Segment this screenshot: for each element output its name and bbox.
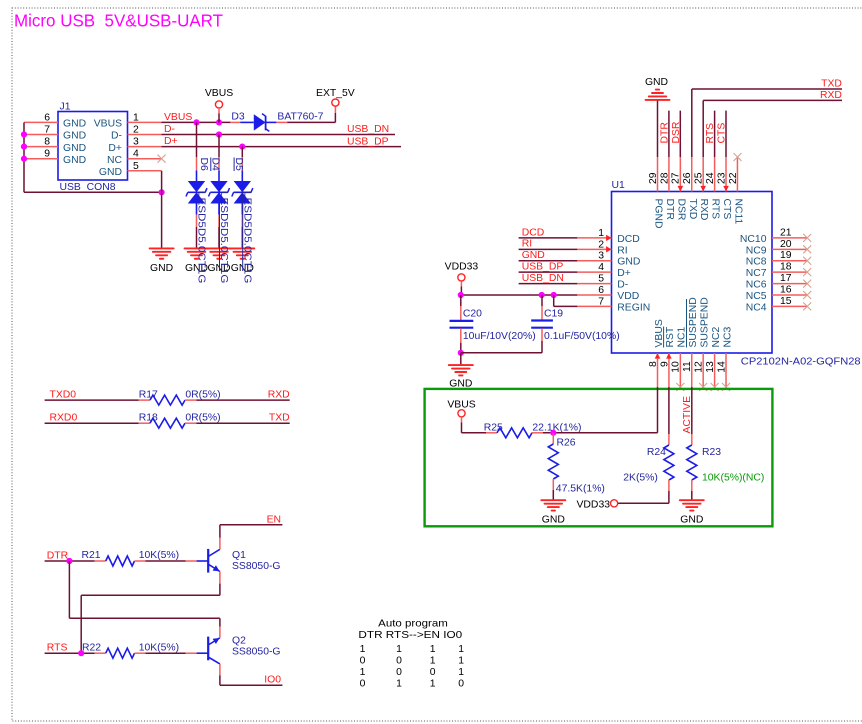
svg-text:BAT760-7: BAT760-7 (277, 112, 323, 123)
J1 pin 2 lead (128, 134, 162, 136)
U1 pin 23 input arrow (723, 186, 729, 192)
wire RTS to R22 (45, 652, 95, 654)
svg-text:USB_DN: USB_DN (522, 273, 564, 284)
svg-text:U1: U1 (612, 180, 626, 191)
wire R21 to Q1 (146, 560, 186, 562)
capacitor C19 top pin (541, 295, 543, 320)
wire VDD rail (461, 294, 578, 296)
net label IO0 (264, 675, 281, 686)
net label CTS vertical (716, 123, 727, 144)
svg-text:NC8: NC8 (746, 257, 767, 268)
svg-text:21: 21 (780, 227, 792, 238)
wire C19 bottom to C20 (461, 352, 542, 354)
ground R26 (541, 500, 565, 510)
svg-text:0: 0 (396, 655, 402, 666)
junction DTR (66, 558, 72, 564)
svg-text:18: 18 (780, 262, 792, 273)
net label EN (267, 514, 281, 525)
transistor Q1 value SS8050-G (232, 561, 281, 572)
junction J1 pin7 (21, 131, 27, 137)
U1 pin 1 input arrow (606, 235, 611, 241)
U1 pin 1 number (598, 228, 604, 239)
net label TXD (821, 78, 842, 89)
svg-text:RTS: RTS (47, 643, 68, 654)
wire D5 to gnd (241, 227, 243, 248)
J1 pin 6 name GND (63, 119, 86, 130)
resistor R18 value (185, 412, 220, 423)
svg-text:DTR: DTR (659, 122, 670, 144)
junction RTS (78, 650, 84, 656)
net label RTS vertical (705, 123, 716, 144)
ground J1 (150, 248, 174, 258)
net label GND at U1 (522, 250, 545, 261)
resistor R25 left pin (486, 432, 497, 434)
svg-text:20: 20 (780, 239, 792, 250)
U1 pin 18 lead (772, 271, 807, 273)
net label DTR vertical (659, 122, 670, 144)
resistor R17 left pin (139, 399, 150, 401)
svg-text:D6: D6 (198, 158, 209, 172)
no-connect U1 pin 14 (722, 383, 730, 391)
net label TXD (269, 413, 290, 424)
resistor R17 symbol (150, 395, 185, 405)
resistor R26 top pin (552, 433, 554, 444)
svg-text:R24: R24 (647, 447, 666, 458)
diode D6 value (196, 191, 207, 283)
svg-text:R22: R22 (82, 642, 101, 653)
wire D6 to gnd (196, 227, 198, 248)
J1 pin 6 lead (24, 121, 58, 123)
net label USB_DP (347, 136, 389, 147)
svg-text:GND: GND (617, 257, 640, 268)
wire D- rail USB_DN (162, 134, 396, 136)
wire DTR up (668, 111, 670, 157)
resistor R21 left pin (95, 560, 106, 562)
wire D6 top (196, 122, 198, 157)
U1 pin 10 lead (679, 353, 681, 387)
wire Q1 collector to EN (219, 525, 221, 538)
svg-text:REGIN: REGIN (617, 302, 650, 313)
svg-text:USB_CON8: USB_CON8 (60, 182, 116, 193)
resistor R24 symbol (664, 445, 674, 480)
U1 pin 9 RST overline (663, 327, 665, 348)
ground D5 (230, 248, 254, 258)
no-connect U1 pin 19 (803, 257, 811, 265)
U1 pin 14 number (716, 361, 727, 373)
resistor R22 refdes (82, 642, 101, 653)
ground D4 (207, 248, 231, 258)
svg-text:9: 9 (659, 361, 670, 367)
J1 pin 7 number (44, 125, 50, 136)
svg-text:GND: GND (522, 250, 545, 261)
svg-text:R26: R26 (557, 438, 576, 449)
J1 pin 9 lead (24, 158, 58, 160)
svg-text:11: 11 (682, 361, 693, 372)
resistor R23 bottom pin (691, 480, 693, 491)
U1 pin 15 number (780, 296, 792, 307)
diode D5 symbol (232, 170, 253, 214)
svg-text:0: 0 (360, 655, 366, 666)
junction J1 pin9 (21, 156, 27, 162)
diode D6 symbol (186, 170, 207, 214)
diode D5 value (241, 191, 252, 283)
resistor R17 right pin (185, 399, 196, 401)
svg-text:PGND: PGND (653, 199, 664, 229)
svg-text:1: 1 (458, 667, 464, 678)
U1 pin 24 number (705, 172, 716, 184)
svg-text:16: 16 (780, 285, 792, 296)
svg-text:USB_DN: USB_DN (347, 124, 389, 135)
svg-text:Micro USB 5V&USB-UART: Micro USB 5V&USB-UART (14, 11, 223, 31)
svg-text:RI: RI (522, 239, 532, 250)
resistor R17 refdes (139, 389, 158, 400)
svg-text:SS8050-G: SS8050-G (232, 647, 281, 658)
svg-text:1: 1 (430, 678, 436, 689)
U1 pin 20 name NC9 (746, 245, 767, 256)
diode D6 top pin (196, 157, 198, 170)
U1 value CP2102N-A02-GQFN28 (741, 357, 861, 368)
ground C20 (449, 365, 473, 375)
wire D+ rail USB_DP (162, 146, 402, 148)
ground D4 label (207, 263, 230, 274)
svg-text:1: 1 (430, 644, 436, 655)
capacitor C20 bottom pin (460, 328, 462, 353)
resistor R18 left pin (139, 422, 150, 424)
J1 pin 1 name VBUS (94, 119, 122, 130)
svg-text:17: 17 (780, 273, 792, 284)
svg-text:SUSPEND: SUSPEND (688, 297, 699, 347)
transistor Q2 symbol (197, 637, 220, 664)
ground R23 label (680, 515, 703, 526)
U1 pin 10 number (671, 361, 682, 373)
svg-text:1: 1 (396, 678, 402, 689)
resistor R24 bottom pin (668, 480, 670, 491)
svg-text:D+: D+ (108, 143, 122, 154)
ground D6 label (185, 263, 208, 274)
U1 pin 20 lead (772, 248, 807, 250)
transistor Q1 symbol (197, 549, 220, 573)
U1 refdes (612, 180, 626, 191)
resistor R23 top pin (691, 434, 693, 445)
no-connect U1 pin 13 (711, 383, 719, 391)
wire D3 to EXT_5V (287, 106, 335, 122)
svg-text:22: 22 (728, 172, 739, 184)
J1 pin 2 name D- (111, 131, 122, 142)
U1 pin 23 number (716, 172, 727, 184)
resistor R21 refdes (82, 550, 101, 561)
wire TXD0 left (45, 399, 139, 401)
resistor R21 symbol (106, 556, 135, 566)
svg-text:1: 1 (430, 655, 436, 666)
power flag VBUS label (205, 88, 233, 99)
U1 pin 22 number (728, 172, 739, 184)
svg-text:RST: RST (665, 326, 676, 347)
U1 pin 26 lead (691, 157, 693, 192)
junction C20 bottom (458, 350, 464, 356)
U1 pin 5 lead (577, 283, 611, 285)
svg-text:1: 1 (360, 667, 366, 678)
svg-text:R21: R21 (82, 550, 101, 561)
net label USB_DN at U1 (522, 273, 564, 284)
net label ACTIVE vertical (682, 396, 693, 434)
wire U1 pin9 to R24 (668, 387, 670, 434)
svg-text:GND: GND (99, 167, 122, 178)
wire DTR cross link (69, 561, 220, 618)
svg-text:RI: RI (617, 245, 627, 256)
diode D6 bottom pin (196, 215, 198, 227)
svg-text:VBUS: VBUS (447, 400, 475, 411)
diode D5 refdes (233, 158, 244, 172)
wire U1 pin 5 stub (519, 283, 578, 285)
wire R24 to VDD33 (618, 491, 669, 503)
net label DCD at U1 (522, 227, 545, 238)
svg-text:Auto program: Auto program (378, 619, 448, 630)
svg-text:NC1: NC1 (677, 326, 688, 347)
U1 pin 23 lead (725, 157, 727, 192)
svg-text:DSR: DSR (675, 199, 686, 221)
svg-text:SS8050-G: SS8050-G (232, 561, 281, 572)
svg-text:VBUS: VBUS (164, 112, 192, 123)
svg-text:22.1K(1%): 22.1K(1%) (532, 422, 581, 433)
transistor Q1 base pin (186, 560, 197, 562)
U1 pin 28 name DTR (664, 199, 675, 221)
diode D4 bottom pin (218, 215, 220, 227)
svg-text:DCD: DCD (522, 227, 545, 238)
U1 pin 14 lead (725, 353, 727, 387)
U1 pin 9 name RST (665, 326, 676, 347)
U1 pin 11 number (682, 361, 693, 372)
svg-text:NC9: NC9 (746, 245, 767, 256)
capacitor C20 value (463, 331, 536, 342)
power flag VDD33 2 (611, 500, 618, 507)
U1 pin 27 input arrow (678, 186, 684, 192)
wire PGND (657, 101, 659, 157)
U1 pin 6 number (598, 285, 604, 296)
svg-text:J1: J1 (60, 102, 71, 113)
U1 pin 8 name VBUS (654, 319, 665, 347)
resistor R25 right pin (532, 432, 543, 434)
svg-text:SUSPEND: SUSPEND (699, 297, 710, 347)
capacitor C19 value (544, 331, 620, 342)
J1 pin 5 lead (128, 170, 162, 172)
wire DSR up (679, 111, 681, 157)
wire R25 to U1 pin8 (543, 387, 658, 433)
svg-text:D+: D+ (617, 268, 631, 279)
no-connect U1 pin 21 (803, 234, 811, 242)
wire C20 gnd drop (460, 353, 462, 365)
ground U1 PGND (646, 90, 670, 100)
U1 pin 4 number (598, 262, 604, 273)
J1 pin 9 number (44, 149, 50, 160)
wire R26 to gnd (552, 490, 554, 500)
no-connect U1 pin 18 (803, 268, 811, 276)
wire J1 left vertical (23, 122, 25, 192)
svg-text:IO0: IO0 (264, 675, 281, 686)
wire Q2 collector to IO0 (220, 676, 283, 686)
svg-text:1: 1 (360, 644, 366, 655)
U1 pin 5 name D- (617, 280, 628, 291)
svg-text:DTR: DTR (664, 199, 675, 221)
diode D3 refdes (231, 112, 245, 123)
svg-text:GND: GND (645, 77, 668, 88)
U1 pin 29 lead (657, 157, 659, 192)
U1 pin 3 number (598, 251, 604, 262)
resistor R22 value (139, 642, 179, 653)
J1 pin 3 name D+ (108, 143, 122, 154)
wire VBUS to R25 (462, 432, 487, 434)
U1 pin 19 lead (772, 260, 807, 262)
U1 pin 2 lead (577, 248, 611, 250)
wire RXD0 left (45, 422, 139, 424)
wire U1 pin11 to R23 (691, 387, 693, 434)
transistor Q2 collector pin (219, 664, 221, 676)
svg-text:ACTIVE: ACTIVE (682, 396, 693, 434)
no-connect U1 pin 16 (803, 291, 811, 299)
junction VDD pin7 (551, 292, 557, 298)
wire U1 pin 1 stub (519, 237, 578, 239)
svg-text:14: 14 (716, 361, 727, 373)
svg-text:DTR RTS-->EN IO0: DTR RTS-->EN IO0 (358, 630, 462, 641)
power flag VBUS 2 label (447, 400, 475, 411)
U1 pin 11 name SUSPEND (688, 297, 699, 347)
svg-text:TXD0: TXD0 (50, 390, 77, 401)
resistor R24 value (623, 473, 658, 484)
resistor R17 value (185, 389, 220, 400)
U1 pin 13 name NC2 (711, 326, 722, 347)
svg-text:0R(5%): 0R(5%) (185, 412, 220, 423)
junction VBUS D6 (193, 119, 199, 125)
U1 pin 3 lead (577, 260, 611, 262)
svg-text:NC: NC (107, 155, 123, 166)
svg-text:TXD: TXD (821, 78, 842, 89)
J1 pin 6 number (44, 112, 50, 123)
U1 pin 25 name RXD (698, 199, 709, 221)
U1 pin 2 name RI (617, 245, 627, 256)
U1 pin 21 lead (772, 237, 807, 239)
diode D5 top pin (241, 157, 243, 170)
ground C20 label (449, 378, 472, 389)
U1 pin 29 number (648, 172, 659, 184)
resistor R25 value (532, 422, 581, 433)
U1 pin 12 lead (702, 353, 704, 387)
svg-text:TXD: TXD (687, 199, 698, 220)
J1 pin 4 name NC (107, 155, 123, 166)
svg-text:VDD33: VDD33 (577, 499, 611, 510)
wire TXD (692, 89, 842, 157)
U1 pin 19 number (780, 250, 792, 261)
J1 pin 9 name GND (63, 155, 86, 166)
U1 pin 9 lead (668, 353, 670, 387)
J1 pin 1 number (133, 112, 139, 123)
net label RTS 2 (47, 643, 68, 654)
connector J1 refdes (60, 102, 71, 113)
connector J1 box (58, 112, 128, 181)
J1 pin 7 lead (24, 134, 58, 136)
diode D4 symbol (209, 170, 230, 214)
svg-text:USB_DP: USB_DP (347, 136, 389, 147)
resistor R26 symbol (548, 444, 558, 479)
svg-text:10: 10 (671, 361, 682, 373)
svg-text:0R(5%): 0R(5%) (185, 389, 220, 400)
svg-text:NC5: NC5 (746, 291, 767, 302)
U1 pin 4 lead (577, 271, 611, 273)
power flag VBUS (215, 101, 222, 123)
net label RXD (820, 90, 842, 101)
U1 pin 15 name NC4 (746, 302, 767, 313)
diode D3 value BAT760-7 (277, 112, 323, 123)
resistor R23 refdes (702, 447, 721, 458)
wire U1 pin 2 stub (519, 248, 578, 250)
svg-text:VBUS: VBUS (94, 119, 122, 130)
no-connect U1 pin 10 (676, 383, 684, 391)
svg-text:NC6: NC6 (746, 280, 767, 291)
diode D4 top pin (218, 157, 220, 170)
U1 pin 27 number (671, 172, 682, 184)
svg-text:CP2102N-A02-GQFN28: CP2102N-A02-GQFN28 (741, 357, 861, 368)
resistor R23 value (702, 473, 764, 484)
U1 pin 28 number (659, 172, 670, 184)
ground R23 (680, 500, 704, 510)
no-connect U1 pin 17 (803, 280, 811, 288)
J1 pin 4 lead (128, 158, 162, 160)
U1 pin 14 name NC3 (722, 326, 733, 347)
U1 pin 8 number (648, 361, 659, 367)
junction VDD C20 (458, 292, 464, 298)
resistor R25 symbol (497, 428, 532, 438)
U1 pin 24 lead (714, 157, 716, 192)
wire R22 to Q2 (146, 652, 186, 654)
U1 pin 16 lead (772, 294, 807, 296)
junction VBUS stem (216, 119, 222, 125)
transistor Q1 refdes (232, 550, 246, 561)
svg-text:47.5K(1%): 47.5K(1%) (556, 484, 605, 495)
svg-text:1: 1 (458, 644, 464, 655)
net label USB_DN (347, 124, 389, 135)
svg-text:GND: GND (63, 119, 86, 130)
transistor Q2 value SS8050-G (232, 647, 281, 658)
wire VBUS rail (162, 121, 231, 123)
diode D4 refdes (210, 158, 221, 172)
svg-text:1: 1 (396, 644, 402, 655)
U1 pin 20 number (780, 239, 792, 250)
U1 pin 3 name GND (617, 257, 640, 268)
junction J1 gnd (159, 189, 165, 195)
transistor Q2 base pin (186, 652, 197, 654)
wire U1 pin 4 stub (519, 271, 578, 273)
wire R18 right (196, 422, 289, 424)
wire U1 pin7 jog (554, 295, 578, 306)
svg-text:12: 12 (694, 361, 705, 373)
net label USB_DP at U1 (522, 262, 564, 273)
svg-text:D+: D+ (164, 136, 178, 147)
svg-text:0: 0 (458, 678, 464, 689)
J1 pin 3 number (133, 137, 139, 148)
transistor Q2 refdes (232, 636, 246, 647)
resistor R24 top pin (668, 434, 670, 445)
net label RXD (268, 390, 290, 401)
power flag EXT_5V label (316, 88, 355, 99)
net label VBUS (164, 112, 192, 123)
svg-text:RXD: RXD (698, 199, 709, 221)
wire J1 bottom gnd horizontal (24, 191, 162, 193)
U1 pin 4 name D+ (617, 268, 631, 279)
wire R23 to gnd (691, 491, 693, 500)
J1 pin 5 number (133, 161, 139, 172)
J1 pin 5 name GND (99, 167, 122, 178)
U1 pin 7 name REGIN (617, 302, 650, 313)
no-connect U1 pin 12 (699, 383, 707, 391)
J1 pin 8 number (44, 137, 50, 148)
